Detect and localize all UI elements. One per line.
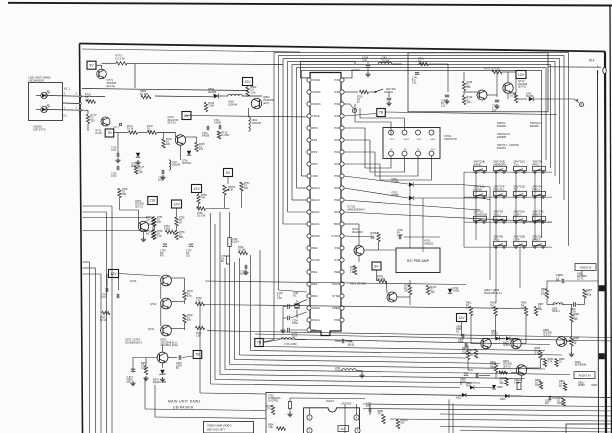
- resistor RT87: [100, 311, 110, 322]
- switch SW704 PRG+: [533, 185, 546, 199]
- capacitor C741: [412, 73, 419, 85]
- svg-text:SW 301: SW 301: [386, 87, 396, 91]
- IC701 left pin SYNC: [307, 258, 320, 262]
- IC701 left pin PE0: [307, 246, 318, 250]
- IC701 right pin PS1: [334, 198, 344, 202]
- power box 12V mid-left2: [172, 200, 182, 208]
- resistor R746: [462, 96, 472, 105]
- capacitor C760 bottom: [287, 398, 292, 417]
- svg-text:2SC2621 (D.E): 2SC2621 (D.E): [161, 343, 178, 347]
- svg-text:DJ 3.3K: DJ 3.3K: [116, 56, 126, 60]
- wire bottom horizontals lower: [145, 377, 266, 419]
- svg-text:12V: 12V: [193, 187, 200, 191]
- svg-text:10K: 10K: [500, 383, 505, 385]
- svg-text:ES0357: ES0357: [497, 146, 507, 150]
- capacitor C822A box: [514, 379, 522, 390]
- svg-text:PS0: PS0: [334, 210, 340, 214]
- svg-text:470: 470: [160, 256, 165, 258]
- svg-text:DJ 390: DJ 390: [140, 92, 149, 96]
- svg-text:P33: P33: [334, 78, 340, 82]
- capacitor C705: [288, 328, 298, 338]
- wire nested bus loops around IC701: [274, 53, 569, 340]
- transistor Q803r: [511, 338, 521, 348]
- IC702 pins top: [389, 130, 436, 141]
- LED unit box CN outline: [29, 83, 63, 121]
- transistor Q733: [161, 275, 172, 286]
- IC701 right pin P21: [334, 150, 344, 154]
- svg-text:ES0002: ES0002: [497, 124, 507, 128]
- IC701 left pin VOW2: [307, 90, 321, 94]
- svg-text:27K: 27K: [199, 149, 204, 151]
- svg-text:27R: 27R: [362, 58, 367, 62]
- resistor R733: [196, 298, 205, 306]
- label MAIN UNIT DAW2: [168, 400, 201, 410]
- svg-text:2SA1608 (E.F): 2SA1608 (E.F): [125, 340, 142, 344]
- resistor RT26 vertical: [162, 139, 173, 148]
- black tab on right border upper: [599, 286, 605, 292]
- svg-text:10K: 10K: [404, 291, 409, 293]
- transistor Q801r: [481, 338, 491, 348]
- IC701 right pin SYN1: [332, 294, 344, 298]
- svg-text:76K: 76K: [201, 198, 206, 200]
- IC701 right pin P11: [335, 246, 345, 250]
- IC701 right pin VSS: [334, 318, 344, 322]
- svg-text:5JP-5770: 5JP-5770: [33, 128, 46, 132]
- IC101 pin 8: [354, 415, 359, 420]
- svg-text:P11: P11: [335, 246, 340, 250]
- wire bottom-right cluster: [461, 345, 557, 398]
- resistor R823: [499, 371, 507, 374]
- svg-text:(E.F.G): (E.F.G): [518, 85, 526, 89]
- svg-text:12V: 12V: [244, 80, 251, 84]
- IC701 right pin P10: [334, 258, 344, 262]
- wire long pin runs to matrix: [344, 185, 545, 281]
- resistor R705: [404, 286, 412, 295]
- svg-text:2.7K: 2.7K: [462, 353, 467, 355]
- capacitor C708: [240, 265, 249, 276]
- resistor R830: [543, 359, 553, 367]
- svg-text:33UH-J: 33UH-J: [552, 311, 560, 313]
- diode D706: [448, 288, 460, 293]
- svg-text:D822: D822: [456, 398, 462, 400]
- transistor Q731: [161, 325, 172, 336]
- switch SW701F RECALL: [494, 185, 507, 199]
- svg-text:LA7520: LA7520: [341, 402, 352, 406]
- svg-text:PE4: PE4: [334, 270, 340, 274]
- IC701 left pin OSC1: [307, 318, 320, 322]
- svg-text:12003: 12003: [232, 242, 239, 244]
- svg-text:1K: 1K: [179, 223, 182, 225]
- capacitor C743: [492, 100, 500, 113]
- svg-text:TB: TB: [195, 353, 200, 357]
- svg-text:FK 01: FK 01: [348, 345, 355, 347]
- capacitor C826: [476, 373, 478, 378]
- svg-text:CH 1: CH 1: [101, 297, 107, 299]
- svg-text:PP0: PP0: [312, 126, 318, 130]
- svg-text:10K: 10K: [431, 292, 436, 294]
- resistor R725: [195, 143, 205, 152]
- svg-text:12V: 12V: [458, 316, 465, 320]
- resistor R809: [140, 89, 151, 99]
- capacitor C802: [570, 302, 576, 313]
- IC701 left pin DAC2: [307, 210, 320, 214]
- resistor R723 vertical: [204, 103, 214, 112]
- IC101 inner box AFT: [338, 426, 349, 432]
- power box 5V top-left: [87, 61, 96, 69]
- svg-text:UE164362A: UE164362A: [29, 79, 45, 83]
- box R/C PRE AMP: [396, 248, 440, 273]
- svg-text:0.56d: 0.56d: [164, 229, 171, 231]
- svg-text:DJ: DJ: [146, 234, 149, 236]
- IC701 right pin P33: [334, 78, 344, 82]
- svg-text:12V: 12V: [518, 73, 525, 77]
- resistor R811: [466, 303, 473, 316]
- svg-text:HC: HC: [293, 296, 297, 298]
- svg-text:VOW2: VOW2: [312, 90, 321, 94]
- resistor R825: [535, 380, 543, 389]
- transistor QT41: [477, 90, 487, 100]
- resistor R707: [350, 266, 357, 275]
- inductor L701: [335, 368, 365, 378]
- IC701 left pin PP2: [307, 150, 318, 154]
- svg-text:22K: 22K: [146, 220, 151, 222]
- resistor R704: [377, 276, 387, 283]
- IC701 left pin TDAC: [307, 114, 320, 118]
- wire 12V to R802: [247, 86, 249, 88]
- wire P30 bus to matrix area: [386, 112, 558, 115]
- IC701 left pin PE2: [307, 282, 318, 286]
- svg-text:R747 DJ 5.6K: R747 DJ 5.6K: [484, 67, 500, 71]
- resistor R822b: [462, 348, 470, 360]
- resistor R872: [141, 363, 148, 375]
- IC101 pin 9: [355, 428, 360, 433]
- wire bottom right inner rectangle: [566, 424, 612, 433]
- svg-text:P31: P31: [334, 102, 340, 106]
- resistor R755: [175, 217, 185, 226]
- IC701 left pin PP0: [307, 126, 318, 130]
- wire TDAC feed: [114, 116, 307, 161]
- IC701 right pin P23: [334, 126, 344, 130]
- diode D870 zener: [153, 370, 166, 384]
- switch SW701A MODE: [474, 185, 487, 199]
- wire cluster box outline top-right: [408, 53, 548, 112]
- resistor R706: [426, 286, 436, 295]
- ground Q751: [143, 237, 145, 239]
- label switch part numbers block: [497, 121, 543, 150]
- svg-text:DOSC: DOSC: [312, 234, 320, 238]
- svg-text:DET AGC AFT: DET AGC AFT: [207, 428, 225, 432]
- svg-text:P10: P10: [334, 258, 340, 262]
- svg-text:68K: 68K: [179, 237, 184, 239]
- transistor Q805: [557, 337, 567, 347]
- capacitor C725: [111, 166, 119, 178]
- capacitor C872: [176, 355, 182, 370]
- svg-text:2SA1608 (E.F): 2SA1608 (E.F): [484, 291, 502, 295]
- IC701 left pin DAC4: [307, 186, 320, 190]
- resistor RT34: [183, 291, 194, 300]
- resistor RT13: [217, 131, 229, 139]
- wire oscillator cluster internal: [429, 64, 527, 99]
- IC701 right pin SYNO: [331, 234, 344, 238]
- svg-text:VOW3: VOW3: [312, 102, 321, 106]
- svg-text:OSC1: OSC1: [404, 139, 411, 141]
- svg-text:PP3: PP3: [312, 162, 318, 166]
- power box 12V right-mid: [457, 314, 467, 322]
- capacitor C721: [214, 120, 222, 129]
- potentiometer VR701: [223, 185, 236, 195]
- resistor R754g: [164, 226, 175, 234]
- wire Q-chain long runs: [205, 281, 612, 345]
- svg-text:VO8: VO8: [312, 174, 318, 178]
- svg-text:GND: GND: [431, 139, 436, 141]
- crystal X701: [294, 303, 299, 305]
- wire P32 to SW301: [344, 90, 375, 93]
- IC701 right pin P30: [334, 114, 344, 118]
- resistor R731: [196, 326, 205, 337]
- svg-text:P32: P32: [334, 90, 340, 94]
- wire preamp cluster: [344, 224, 440, 305]
- svg-text:DJ 3.9K: DJ 3.9K: [197, 216, 206, 218]
- switch SW709 PRG-: [533, 160, 546, 174]
- resistor R773: [116, 62, 127, 65]
- inductor L721: [169, 160, 181, 170]
- wire nest to KH connector: [548, 66, 601, 68]
- svg-text:IS/556: IS/556: [578, 385, 585, 387]
- power box TB crystal: [255, 339, 263, 347]
- svg-text:IC101: IC101: [326, 399, 334, 403]
- svg-text:12K: 12K: [244, 188, 249, 190]
- svg-text:EM: EM: [545, 403, 549, 405]
- LED D901: [36, 90, 50, 99]
- resistor R831: [557, 398, 565, 406]
- wire IC702 to IC701 routing: [344, 104, 432, 180]
- svg-text:100UHK: 100UHK: [228, 102, 238, 106]
- capacitor C871 electrolytic: [127, 369, 136, 384]
- resistor R757: [240, 182, 250, 191]
- svg-text:1.8K: 1.8K: [277, 298, 282, 300]
- svg-text:EN7850W: EN7850W: [575, 364, 587, 367]
- main frame left border: [80, 44, 83, 433]
- svg-text:K1.1: K1.1: [64, 87, 70, 91]
- resistor R756: [175, 231, 185, 240]
- box region bottom block: [266, 393, 612, 433]
- inductor L802: [219, 94, 262, 106]
- svg-text:VOW1: VOW1: [312, 78, 321, 82]
- svg-text:5V: 5V: [374, 264, 379, 268]
- svg-text:(E.P): (E.P): [263, 101, 269, 105]
- wire P30 long to right: [344, 114, 376, 117]
- svg-text:1.5K: 1.5K: [350, 272, 355, 274]
- svg-text:0.015: 0.015: [397, 235, 404, 237]
- switch SW701C TU+: [514, 160, 527, 174]
- svg-text:MAIN UNIT DAW2: MAIN UNIT DAW2: [168, 400, 201, 404]
- svg-text:12V: 12V: [173, 202, 180, 206]
- svg-text:DAC1: DAC1: [312, 222, 320, 226]
- capacitor C821: [545, 396, 551, 405]
- svg-text:CLK: CLK: [431, 149, 436, 151]
- switch SW301: [375, 87, 397, 106]
- svg-text:1.5K: 1.5K: [251, 91, 256, 94]
- capacitor C750: [160, 244, 167, 258]
- svg-text:IS/555: IS/555: [453, 291, 460, 293]
- wire R802 to Q802: [247, 95, 249, 98]
- svg-text:21B: 21B: [150, 199, 156, 203]
- IC701 left pin PP3: [307, 162, 318, 166]
- svg-text:33K: 33K: [122, 194, 127, 196]
- IC701 left pin VOW1: [307, 78, 321, 82]
- resistor R852: [378, 411, 386, 424]
- svg-text:TRQ: TRQ: [333, 222, 340, 226]
- wire fan bundle bottom: [200, 347, 570, 395]
- resistor R708: [371, 233, 381, 242]
- capacitor CN801: [556, 275, 564, 283]
- svg-text:KA: KA: [221, 258, 225, 261]
- capacitor C744 above IC: [362, 56, 371, 77]
- wire long horizontal below frame top: [82, 49, 301, 52]
- IC701 right pin P32: [334, 90, 344, 94]
- resistor R751: [153, 217, 163, 226]
- svg-text:R851A: R851A: [401, 419, 409, 422]
- svg-text:10K: 10K: [147, 131, 152, 133]
- svg-text:CH 1: CH 1: [111, 176, 117, 178]
- resistor R810: [491, 303, 498, 316]
- svg-text:DJ 18K: DJ 18K: [222, 135, 230, 137]
- inductor L801 vertical: [249, 108, 262, 131]
- svg-text:UN0022: UN0022: [424, 241, 434, 245]
- svg-text:PE1: PE1: [312, 270, 318, 274]
- svg-text:1/50C: 1/50C: [292, 323, 299, 325]
- svg-text:AUDIO IN: AUDIO IN: [579, 374, 591, 378]
- node B circled: [574, 99, 584, 107]
- svg-text:RA: RA: [160, 252, 164, 255]
- transistor Q821: [516, 365, 526, 375]
- svg-text:IS2095: IS2095: [208, 90, 217, 94]
- wire video block inner horizontals: [363, 404, 612, 432]
- svg-text:4.7K: 4.7K: [535, 353, 540, 355]
- svg-text:PNG: PNG: [466, 386, 471, 388]
- svg-text:0.01: 0.01: [441, 106, 446, 108]
- capacitor C825: [460, 373, 468, 386]
- wire IC101 area: [290, 398, 370, 415]
- svg-text:VIDEO IN: VIDEO IN: [580, 266, 592, 270]
- resistor R759: [197, 207, 206, 218]
- svg-text:RA180: RA180: [202, 135, 210, 138]
- wire to node B: [534, 98, 574, 100]
- wire K1 lines into circuit: [80, 96, 105, 131]
- diode D702: [344, 188, 480, 200]
- svg-text:DJ 16K: DJ 16K: [238, 250, 246, 252]
- svg-text:CH 1: CH 1: [111, 150, 117, 152]
- svg-text:2SA1608: 2SA1608: [352, 230, 363, 234]
- resistor R821: [559, 381, 567, 391]
- resistor R758: [197, 195, 207, 204]
- svg-text:1K: 1K: [574, 343, 577, 345]
- switch SW701B BAND: [474, 160, 487, 174]
- wire left-side verticals to bottom: [83, 206, 113, 433]
- IC701 left pin DO: [307, 328, 317, 332]
- sheet top edge line: [8, 3, 612, 6]
- IC701 left pin VO8: [307, 174, 318, 178]
- svg-text:56K: 56K: [538, 309, 543, 311]
- svg-text:100UHK: 100UHK: [172, 165, 181, 167]
- resistor R745: [462, 82, 472, 91]
- power box 5V center: [372, 262, 381, 270]
- svg-text:TB: TB: [107, 131, 112, 135]
- capacitor C722: [202, 126, 210, 138]
- svg-text:SYNC: SYNC: [312, 258, 320, 262]
- resistor R752b: [153, 230, 163, 239]
- resistor R802 vertical: [246, 86, 257, 96]
- svg-text:UEIR43KIA: UEIR43KIA: [173, 406, 194, 410]
- IC701 left pin PE1: [307, 270, 318, 274]
- svg-text:KA180: KA180: [214, 122, 222, 125]
- resistor R748: [510, 93, 518, 103]
- svg-text:C3X7071P: C3X7071P: [444, 137, 457, 141]
- svg-text:58K: 58K: [467, 87, 472, 89]
- inner right border line: [598, 70, 599, 433]
- IC701 right pin OSC3: [332, 282, 344, 286]
- svg-text:3.3K: 3.3K: [541, 294, 546, 296]
- svg-text:2.2K: 2.2K: [141, 368, 146, 370]
- IC IC101 body: [304, 408, 360, 433]
- IC701 right pin VREF: [332, 306, 344, 310]
- diode D821: [500, 394, 509, 401]
- svg-text:270: 270: [267, 409, 272, 411]
- svg-text:(E.F.G): (E.F.G): [543, 334, 551, 337]
- svg-text:1K: 1K: [559, 362, 562, 364]
- svg-text:8-75: 8-75: [587, 295, 592, 297]
- svg-text:ES035L: ES035L: [530, 124, 540, 128]
- black tab on right border lower: [599, 354, 605, 360]
- IC701 right pin P31: [334, 102, 344, 106]
- resistor R741: [418, 59, 429, 66]
- switch SW701E MEMORY: [494, 160, 507, 174]
- switch SW701D TE-: [514, 185, 527, 199]
- box VIDEO AMP VIDEO DET AGC AFT: [204, 422, 254, 433]
- wire verticals bottom center-right: [345, 400, 453, 433]
- transistor Q702: [354, 246, 364, 256]
- svg-text:4.7K: 4.7K: [187, 296, 192, 298]
- svg-text:DAC3: DAC3: [312, 198, 320, 202]
- svg-text:IS/555: IS/555: [503, 345, 510, 347]
- svg-text:CH 1: CH 1: [240, 274, 246, 276]
- IC701 left pin PP1: [307, 138, 318, 142]
- IC701 left pin VOW3: [307, 102, 321, 106]
- switch SW703 BRET-: [533, 235, 546, 249]
- inductor L712: [264, 338, 307, 346]
- svg-text:D825: D825: [497, 387, 503, 389]
- capacitor C804r: [458, 339, 467, 347]
- capacitor C806: [456, 327, 464, 339]
- capacitor C754 box: [221, 256, 230, 264]
- resistor R807: [583, 289, 593, 298]
- svg-text:DJ 9K: DJ 9K: [510, 96, 517, 98]
- svg-text:DJ 10K: DJ 10K: [377, 279, 385, 281]
- transistor Q751: [138, 221, 148, 231]
- svg-text:PE3: PE3: [312, 294, 318, 298]
- switch SW707C BRET+: [533, 210, 546, 224]
- svg-text:KA: KA: [186, 252, 190, 255]
- capacitor C726: [158, 170, 166, 182]
- diode D822: [456, 393, 466, 400]
- transistor Q732: [161, 298, 172, 309]
- svg-text:DJ 1K: DJ 1K: [96, 132, 103, 135]
- resistor RT21: [127, 126, 138, 134]
- svg-text:102: 102: [186, 256, 191, 258]
- box 21B: [148, 197, 158, 205]
- capacitor C709: [397, 230, 404, 239]
- ground crystal: [282, 328, 284, 330]
